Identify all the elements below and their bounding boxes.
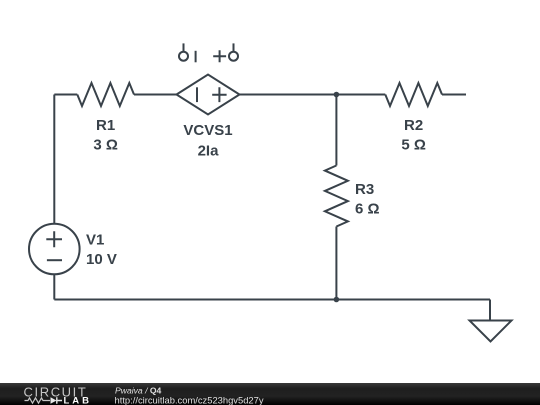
wire V1 bottom lead: [53, 274, 55, 299]
svg-text:http://circuitlab.com/cz523hgv: http://circuitlab.com/cz523hgv5d27y: [115, 394, 264, 405]
VCVS1 minus mark inside diamond: [196, 87, 198, 102]
svg-text:R1: R1: [96, 117, 115, 134]
logo resistor zigzag: [25, 398, 51, 403]
footer bar: [0, 383, 540, 405]
VCVS1 control terminal minus circle: [179, 52, 188, 61]
node bottom junction dot: [334, 297, 340, 303]
VCVS1 control terminal minus stub: [183, 43, 185, 51]
voltage source V1 circle: [29, 224, 80, 275]
svg-text:R3: R3: [355, 181, 374, 198]
op-amp/dependent source VCVS1 diamond body: [177, 75, 240, 115]
svg-text:2Ia: 2Ia: [198, 142, 220, 159]
wire node A down to R3: [335, 95, 337, 166]
wire R3 down to bottom net: [335, 227, 337, 300]
V1 minus mark: [47, 259, 62, 261]
svg-text:VCVS1: VCVS1: [183, 122, 232, 139]
wire bottom net: [54, 299, 490, 301]
VCVS1 control terminal plus circle: [229, 52, 238, 61]
svg-text:5 Ω: 5 Ω: [401, 136, 426, 153]
VCVS1 control plus mark: [213, 50, 226, 62]
resistor R2: [385, 83, 442, 106]
wire left vertical (node between R1 and V1 plus): [53, 95, 55, 224]
wire VCVS1 to node A: [240, 94, 386, 96]
svg-text:V1: V1: [86, 231, 104, 248]
wire ground stub: [489, 300, 491, 321]
svg-text:3 Ω: 3 Ω: [93, 136, 118, 153]
V1 plus mark: [46, 231, 62, 247]
wire R2 right open end: [442, 94, 466, 96]
VCVS1 control minus mark: [195, 51, 197, 63]
wire top-left horizontal lead to R1: [54, 94, 77, 96]
svg-text:LAB: LAB: [64, 396, 93, 405]
node A junction dot: [334, 92, 340, 98]
resistor R1: [77, 83, 134, 106]
svg-text:10 V: 10 V: [86, 251, 117, 268]
VCVS1 plus mark inside diamond: [212, 87, 226, 102]
ground symbol: [470, 321, 512, 342]
svg-text:R2: R2: [404, 117, 423, 134]
wire R1 to VCVS1: [134, 94, 177, 96]
svg-text:6 Ω: 6 Ω: [355, 201, 380, 218]
VCVS1 control terminal plus stub: [233, 43, 235, 51]
logo diode: [51, 397, 57, 404]
resistor R3: [325, 166, 348, 227]
